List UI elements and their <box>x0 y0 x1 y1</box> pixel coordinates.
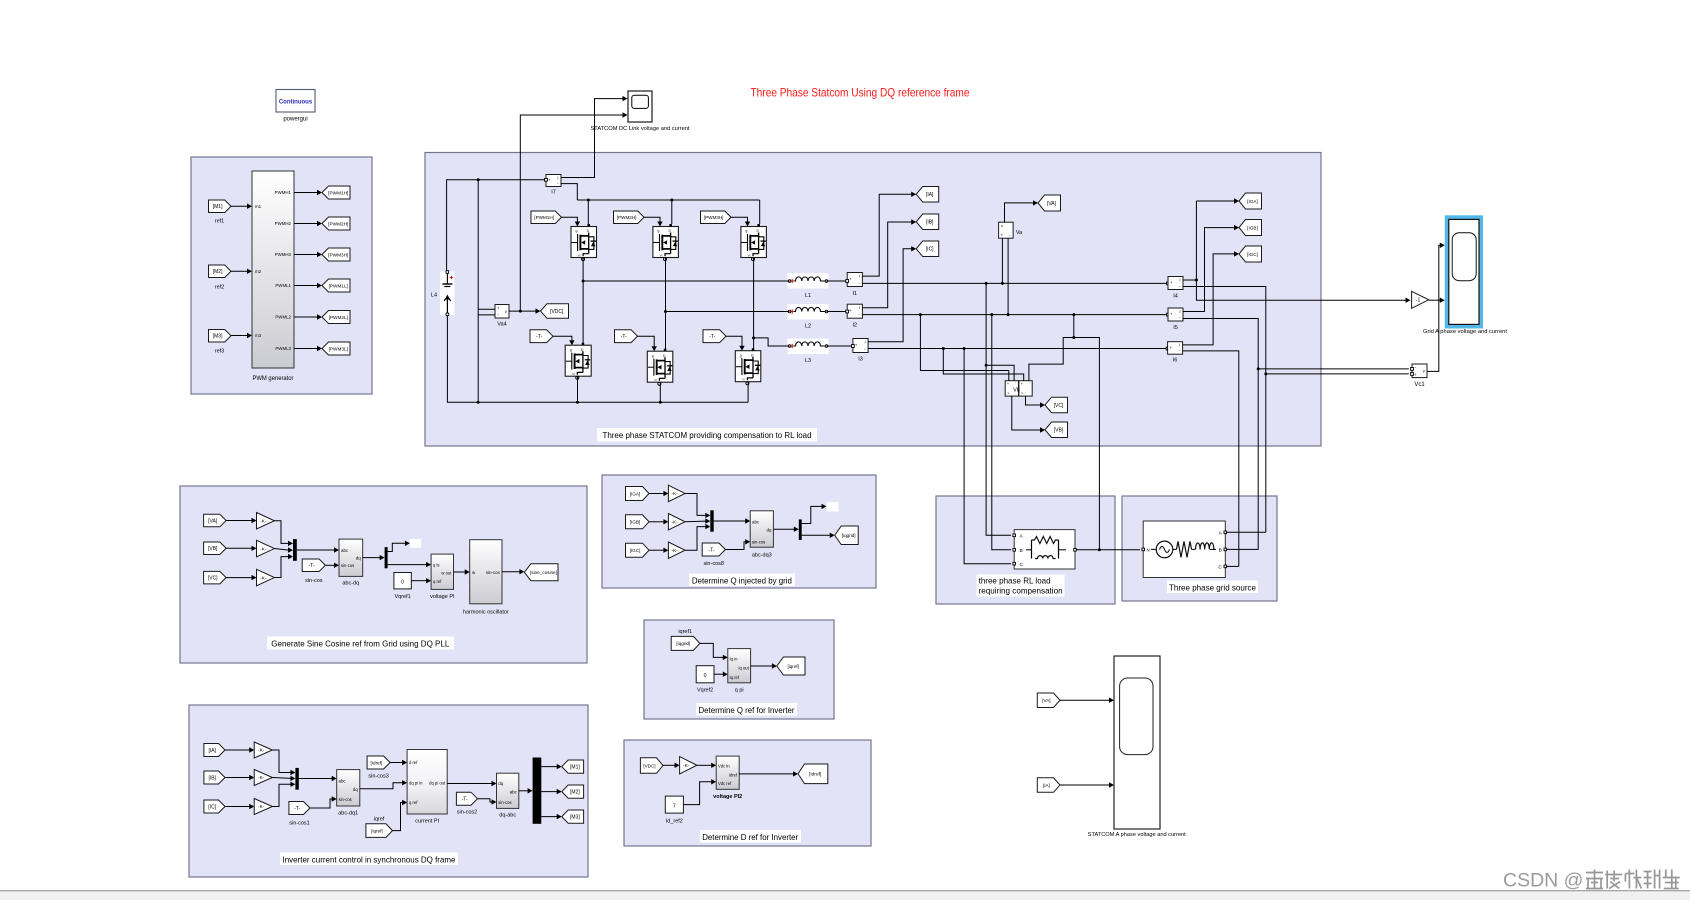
wire PWM generator to [PWM3L] <box>294 346 322 351</box>
svg-text:dq: dq <box>767 528 772 533</box>
mux (inverter currents) <box>295 768 298 790</box>
gain -K- (IGC scale) <box>668 542 685 559</box>
wire: VDC voltage signal to scope input 2 <box>519 112 628 312</box>
svg-text:[IA]: [IA] <box>926 192 934 198</box>
wire demux to terminator <box>802 504 827 524</box>
wire: phase B node between Q2 and Q5 <box>664 258 667 352</box>
mux (abc voltages) <box>293 539 297 561</box>
current measurement I3 <box>853 339 868 363</box>
svg-text:I6: I6 <box>1173 358 1178 364</box>
svg-text:PWMH2: PWMH2 <box>275 221 292 226</box>
demux (dq split) <box>385 547 388 568</box>
svg-text:Vb: Vb <box>1013 388 1020 394</box>
wire mux to abc-dq abc input <box>297 547 339 552</box>
svg-text:-K-: -K- <box>683 763 690 768</box>
svg-text:[M2]: [M2] <box>213 269 223 275</box>
svg-text:i: i <box>558 175 559 180</box>
wire: L4 bottom to DC- bottom bus <box>447 316 748 404</box>
wire: Vb input 4 from grid-N link <box>1029 315 1075 381</box>
svg-text:-K-: -K- <box>258 804 265 809</box>
svg-text:[VC]: [VC] <box>208 575 218 581</box>
svg-text:-K-: -K- <box>672 548 679 553</box>
svg-text:sin-cos: sin-cos <box>339 797 352 802</box>
wire: I6 i to [IGC] <box>1183 251 1239 345</box>
goto tag [PWM3L] <box>322 342 350 355</box>
wire mux to abc-dq1 <box>299 776 337 781</box>
svg-text:[iqref]: [iqref] <box>371 828 383 833</box>
svg-text:dq-abc: dq-abc <box>499 813 516 819</box>
svg-text:Idref: Idref <box>729 772 738 777</box>
subsystem box: Three phase grid source <box>1122 496 1277 601</box>
svg-text:L1: L1 <box>805 293 811 299</box>
svg-text:m3: m3 <box>255 333 262 338</box>
svg-text:Vqref1: Vqref1 <box>394 594 410 600</box>
svg-text:-K-: -K- <box>260 575 267 580</box>
svg-text:i: i <box>865 339 866 344</box>
terminator (d component grid) <box>827 502 839 511</box>
svg-text:[IGA]: [IGA] <box>630 491 640 496</box>
svg-text:[M1]: [M1] <box>570 764 580 770</box>
from tag [iqref] (iqref) <box>366 817 393 838</box>
svg-text:PWM generator: PWM generator <box>253 376 294 382</box>
from tag [PWM3H] <box>701 211 732 224</box>
block: three phase RL load (R+L parallel) <box>1013 530 1076 569</box>
wire: bus phase A (I1 to I4) <box>862 282 1169 285</box>
svg-text:[PWM2H]: [PWM2H] <box>328 221 348 226</box>
wire: Va4 v output to [VDC] <box>509 308 541 313</box>
wire: gain output to scope input 2 <box>1429 298 1445 303</box>
svg-text:L4: L4 <box>431 293 437 299</box>
wire -T- to abc-dq sin-cos input <box>325 563 339 568</box>
svg-text:Va4: Va4 <box>497 322 506 328</box>
current measurement I5 <box>1168 308 1183 331</box>
wire -T- to abc-dq1 sin-cos <box>310 796 337 808</box>
wire -T- to dq-abc sin-cos <box>478 799 497 805</box>
from tag [M2] (ref2) <box>209 265 232 291</box>
label: Determine Q ref for Inverter <box>696 703 797 716</box>
wire: RL load B output to grid source N <box>1077 549 1141 551</box>
block dq-abc <box>497 773 519 818</box>
from tag [VC] (PLL input) <box>204 571 227 584</box>
wire Vqref2 to q pi Iq ref <box>714 672 728 677</box>
svg-text:harmonic oscillator: harmonic oscillator <box>463 610 509 616</box>
svg-text:[PWM2H]: [PWM2H] <box>617 215 637 220</box>
svg-text:d ref: d ref <box>409 760 418 765</box>
wire gain K2 to mux in2 <box>274 547 293 552</box>
svg-text:B: B <box>1219 547 1222 553</box>
subsystem box: Three phase STATCOM providing compensation to RL load <box>425 153 1321 447</box>
wire: Vc1 + input from grid A line <box>1266 373 1414 376</box>
wire: Vb right output to [VC] <box>1026 396 1046 408</box>
wire -T- to abc-dq3 sin-cos <box>725 539 750 549</box>
svg-text:-T-: -T- <box>294 806 300 812</box>
subsystem box: Determine Q ref for Inverter <box>644 620 834 719</box>
svg-text:dq pi in: dq pi in <box>409 781 423 786</box>
svg-text:abc: abc <box>339 778 347 783</box>
svg-text:-1: -1 <box>1416 298 1421 304</box>
wire [M2] to PWM generator m2 <box>231 269 252 274</box>
wire [M1] to PWM generator m1 <box>231 204 252 209</box>
wire harmonic oscillator to [sine_cosine] <box>502 569 524 574</box>
wire: L3 to I3 <box>827 345 855 348</box>
from tag [IGA] <box>626 487 650 501</box>
svg-text:Determine Q injected by grid: Determine Q injected by grid <box>692 576 792 586</box>
block harmonic oscillator <box>463 540 509 616</box>
subsystem box: Generate Sine Cosine ref from Grid using DQ PLL <box>180 486 587 663</box>
svg-text:-K-: -K- <box>260 546 267 551</box>
wire: I1 i output to [IA] <box>862 192 916 277</box>
svg-text:dq: dq <box>498 781 503 786</box>
gain -K- (IGA scale) <box>668 485 685 502</box>
wire: Va - input from bus B <box>1007 238 1009 314</box>
watermark CSDN <box>1503 870 1680 892</box>
svg-text:VI: VI <box>654 378 657 382</box>
wire q pi to [iqref] <box>751 663 777 668</box>
from tag [-T-] (sin-cos8) <box>702 543 725 567</box>
svg-text:VI: VI <box>748 253 751 257</box>
goto tag [VDC] <box>541 304 569 319</box>
wire: I2 i output to [IB] <box>862 219 916 307</box>
wire gain IGA to mux <box>685 494 710 519</box>
label: Determine Q injected by grid <box>689 574 795 587</box>
wire PWM generator to [PWM2H] <box>294 221 322 226</box>
from tag [-T-] (sin-cos1) <box>289 802 310 827</box>
wire: I6 - output down to grid C <box>1183 351 1239 567</box>
goto tag [Idref] <box>798 764 828 784</box>
svg-text:[PWM1H]: [PWM1H] <box>328 190 348 195</box>
gain -K- (Va scale) <box>257 513 275 530</box>
subsystem box: PWM generator group <box>191 157 372 394</box>
svg-text:i: i <box>1180 309 1181 314</box>
svg-text:[Idref]: [Idref] <box>809 772 821 778</box>
wire [iqref] to current PI q ref <box>393 800 408 831</box>
svg-text:q is: q is <box>433 563 440 568</box>
label: Generate Sine Cosine ref from Grid using DQ PLL <box>267 637 454 650</box>
wire gain K3 to mux in3 <box>274 554 293 578</box>
goto tag [IGA] <box>1239 193 1262 209</box>
svg-text:ref1: ref1 <box>215 219 224 225</box>
svg-text:[IGC]: [IGC] <box>630 548 641 553</box>
label: Inverter current control in synchronous DQ frame <box>280 853 458 866</box>
terminator (d component, unconnected) <box>410 539 421 548</box>
from tag [-T-] lower gate <box>703 330 726 343</box>
svg-text:g: g <box>657 229 659 233</box>
svg-text:[IB]: [IB] <box>208 775 216 781</box>
wire: Vc1 - input from grid B line <box>1258 368 1413 371</box>
svg-text:-K-: -K- <box>672 519 679 524</box>
from tag [IGB] <box>626 515 650 529</box>
svg-text:[Idref]: [Idref] <box>370 760 382 765</box>
svg-text:PWMH3: PWMH3 <box>275 252 292 257</box>
wire: Q5 source to DC- bus <box>659 382 661 402</box>
svg-text:L2: L2 <box>805 324 811 330</box>
wire: Vc1 v output up to scope input 1 <box>1427 243 1445 372</box>
scope block: Grid A phase voltage and current (selected) <box>1423 216 1508 335</box>
svg-text:Vc1: Vc1 <box>1414 382 1425 388</box>
svg-text:[VA]: [VA] <box>208 518 218 524</box>
mosfet Q1 (upper leg A) <box>571 224 597 261</box>
svg-text:q ref: q ref <box>409 800 418 805</box>
goto tag [sine_cosine] <box>524 564 558 581</box>
wire -T- to lower mosfet gate <box>638 336 657 351</box>
svg-text:requiring compensation: requiring compensation <box>979 586 1063 596</box>
svg-text:I7: I7 <box>551 190 556 196</box>
wire Id_ref2 to voltage PI2 Vdc ref <box>683 779 716 805</box>
wire -T- to lower mosfet gate <box>726 336 745 351</box>
wire: phase B to L2 <box>666 311 790 313</box>
wire [PWM3H] to mosfet gate <box>731 217 750 226</box>
mosfet Q5 (lower leg B) <box>647 349 673 386</box>
goto tag [IC] <box>916 241 939 257</box>
svg-text:q ref: q ref <box>433 579 442 584</box>
svg-text:[IGB]: [IGB] <box>1247 225 1257 230</box>
voltage measurement Vc1 <box>1412 364 1427 388</box>
wire: I4 i to [IGA] and branch to -1 gain <box>1183 198 1411 303</box>
svg-text:sin-cos: sin-cos <box>498 800 511 805</box>
current measurement I4 <box>1168 277 1183 300</box>
svg-text:PWML1: PWML1 <box>275 283 291 288</box>
block PWM generator (masked subsystem) <box>252 171 294 382</box>
svg-text:7: 7 <box>673 804 676 810</box>
wire: L1 to I1 <box>827 280 849 283</box>
wire PWM generator to [PWM1H] <box>294 190 322 195</box>
svg-text:CSDN @: CSDN @ <box>1503 870 1583 892</box>
svg-text:[iqgrid]: [iqgrid] <box>676 641 690 646</box>
from tag [Idref] (sin-cos3) <box>367 756 390 780</box>
from tag [iqgrid] (iqref1) <box>671 629 700 650</box>
goto tag [VC] <box>1045 397 1068 413</box>
inductor L2 <box>788 304 829 330</box>
scope block: STATCOM A phase voltage and current <box>1088 656 1187 838</box>
svg-text:-T-: -T- <box>462 797 468 803</box>
wire demux to [M1] <box>541 764 561 769</box>
constant Id_ref2 (7) <box>665 796 683 824</box>
svg-text:q pi: q pi <box>735 688 744 694</box>
svg-text:sin-cos3: sin-cos3 <box>368 774 388 780</box>
svg-text:C: C <box>1218 564 1222 570</box>
svg-text:iqref1: iqref1 <box>678 629 692 635</box>
svg-text:-K-: -K- <box>258 775 265 780</box>
svg-text:[VA]: [VA] <box>1042 698 1050 703</box>
wire demux to [M3] <box>541 814 561 819</box>
label: Determine D ref for Inverter <box>700 830 801 843</box>
svg-text:[iqgrid]: [iqgrid] <box>842 533 856 538</box>
svg-text:PWMH1: PWMH1 <box>275 190 292 195</box>
wire: L2 to I2 <box>827 310 849 313</box>
demux (dq split grid) <box>799 519 802 540</box>
capacitor L4 (DC link) <box>431 271 455 316</box>
wire: phase A node between Q1 and Q4 <box>582 258 585 346</box>
svg-text:[M1]: [M1] <box>213 204 223 210</box>
from tag [M1] (ref1) <box>209 200 232 225</box>
wire demux to [iqgrid] <box>802 533 835 538</box>
current measurement I2 <box>847 304 862 328</box>
svg-text:C: C <box>1020 562 1024 568</box>
svg-text:i: i <box>1180 277 1181 282</box>
inductor L1 <box>788 273 829 299</box>
gain block -1 <box>1412 291 1429 308</box>
goto tag [M3] <box>562 810 584 823</box>
goto tag [IGB] <box>1239 220 1262 236</box>
svg-text:i: i <box>1179 343 1180 348</box>
goto tag [PWM1L] <box>322 279 350 292</box>
wire mux to abc-dq3 <box>714 518 751 523</box>
svg-text:-K-: -K- <box>258 748 265 753</box>
svg-text:0: 0 <box>401 579 404 585</box>
svg-text:sin-cos8: sin-cos8 <box>703 561 723 567</box>
svg-text:abc: abc <box>752 520 760 525</box>
svg-text:L3: L3 <box>805 358 811 364</box>
wire [IB] to gain <box>225 775 254 780</box>
from tag [VA] (PLL input) <box>204 514 227 527</box>
from tag [PWM1H] <box>531 211 562 224</box>
svg-text:-T-: -T- <box>621 334 627 340</box>
goto tag [M1] <box>562 760 584 773</box>
block current PI <box>407 750 447 825</box>
svg-text:[IA]: [IA] <box>208 748 216 754</box>
svg-text:sin-cos: sin-cos <box>752 540 765 545</box>
from tag [PWM2H] <box>614 211 645 224</box>
wire: grid source A to riser <box>1227 531 1266 533</box>
block abc-dq1 <box>337 770 360 817</box>
svg-text:[IGC]: [IGC] <box>1247 252 1258 257</box>
gain -K- (Vc scale) <box>257 569 275 586</box>
svg-text:I5: I5 <box>1173 325 1178 331</box>
goto tag [IGC] <box>1239 246 1262 262</box>
wire gain IGB to mux <box>685 518 710 523</box>
svg-text:ref2: ref2 <box>215 285 224 291</box>
svg-text:D: D <box>751 353 754 357</box>
svg-text:[iqref]: [iqref] <box>787 664 799 669</box>
wire PWM generator to [PWM2L] <box>294 314 322 319</box>
gain -K- (IB scale) <box>254 770 272 786</box>
constant Vqref2 (0) <box>696 666 714 694</box>
wire: Va output to [VA] <box>1005 200 1039 222</box>
block: three phase grid source (AC source + impedance) <box>1142 521 1227 578</box>
svg-text:Three phase grid source: Three phase grid source <box>1169 583 1256 593</box>
gain -K- (IC scale) <box>254 799 272 815</box>
gain -K- (Vdc scale) <box>680 757 697 774</box>
wire Vqref1 to voltage PI q ref <box>411 578 431 583</box>
mosfet Q6 (lower leg C) <box>735 348 761 385</box>
svg-text:[PWM3H]: [PWM3H] <box>704 215 724 220</box>
wire [IA] to scope <box>1060 782 1114 787</box>
svg-text:[VB]: [VB] <box>1054 428 1064 434</box>
svg-text:[IA]: [IA] <box>1043 783 1050 788</box>
svg-text:-K-: -K- <box>672 491 679 496</box>
svg-text:abc: abc <box>341 548 349 553</box>
svg-text:Three Phase Statcom Using DQ r: Three Phase Statcom Using DQ reference f… <box>751 86 970 100</box>
wire: I5 - output down to grid B / Vc1 - <box>1183 319 1260 550</box>
goto tag [IB] <box>916 214 939 230</box>
label: three phase RL load requiring compensation <box>977 575 1065 597</box>
subsystem box: Inverter current control in synchronous DQ frame <box>189 705 588 877</box>
wire [iqgrid] to q pi Iq in <box>700 643 728 660</box>
wire dq-abc to demux <box>519 788 533 793</box>
svg-text:VI: VI <box>572 372 575 376</box>
wire [VC] to gain K3 <box>226 575 256 580</box>
svg-text:-T-: -T- <box>536 334 542 340</box>
wire voltage PI w out to harmonic oscillator <box>454 569 470 574</box>
svg-text:[sine_cosine]: [sine_cosine] <box>530 570 557 575</box>
svg-text:Continuous: Continuous <box>279 100 313 106</box>
svg-text:ref3: ref3 <box>215 349 224 355</box>
svg-text:sin-cos: sin-cos <box>486 570 501 575</box>
svg-text:[PWM1H]: [PWM1H] <box>534 215 554 220</box>
svg-text:[IC]: [IC] <box>926 247 934 253</box>
svg-text:STATCOM A phase voltage and cu: STATCOM A phase voltage and current <box>1088 832 1187 838</box>
svg-text:[VA]: [VA] <box>1047 201 1057 207</box>
wire [IGB] to gain <box>649 519 668 524</box>
voltage measurement Va <box>999 222 1023 238</box>
svg-text:sin-cos1: sin-cos1 <box>289 821 309 827</box>
wire [IA] to gain <box>225 747 254 752</box>
svg-text:m1: m1 <box>255 204 262 209</box>
svg-text:[VB]: [VB] <box>208 546 218 552</box>
from tag [-T-] lower gate <box>615 330 638 343</box>
svg-text:Vdc in: Vdc in <box>718 763 730 768</box>
svg-text:voltage PI: voltage PI <box>430 594 455 600</box>
from tag [VB] (PLL input) <box>204 542 227 555</box>
goto tag [iqgrid] <box>835 526 859 545</box>
svg-text:g: g <box>745 229 747 233</box>
demux (modulation signals) <box>533 758 542 824</box>
from tag [-T-] lower gate <box>530 330 553 343</box>
svg-text:-T-: -T- <box>709 334 715 340</box>
svg-text:D: D <box>581 348 584 352</box>
wire: grid-N link down to B line <box>1074 338 1101 552</box>
svg-text:[VDC]: [VDC] <box>643 763 655 768</box>
svg-text:sin-cos: sin-cos <box>305 578 323 584</box>
label: Three phase STATCOM providing compensation to RL load <box>597 428 817 442</box>
goto tag [PWM1H] <box>322 186 350 199</box>
svg-text:PWML2: PWML2 <box>275 315 291 320</box>
bottom scrollbar strip <box>0 891 1690 900</box>
wire [VB] to gain K2 <box>226 546 256 551</box>
wire PWM generator to [PWM3H] <box>294 252 322 257</box>
goto tag [PWM2H] <box>322 217 350 230</box>
svg-text:[IGA]: [IGA] <box>1247 199 1257 204</box>
wire -T- to lower mosfet gate <box>553 336 575 345</box>
svg-text:i: i <box>859 305 860 310</box>
wire gain to voltage PI2 Vdc in <box>697 763 716 768</box>
wire: DC+ rail to I7 <box>447 178 548 272</box>
from tag [VDC] <box>640 758 663 774</box>
wire: I7 - output down to top DC bus <box>561 184 577 200</box>
title text: Three Phase Statcom Using DQ reference frame <box>751 86 970 100</box>
svg-text:[PWM1L]: [PWM1L] <box>329 283 348 288</box>
svg-text:I2: I2 <box>853 323 858 329</box>
wire current PI out to dq-abc <box>447 781 496 786</box>
wire: Va + input from bus A <box>1001 238 1003 283</box>
goto tag [VB] <box>1045 422 1068 438</box>
svg-text:Id_ref2: Id_ref2 <box>666 819 683 825</box>
goto tag [PWM3H] <box>322 248 350 261</box>
svg-text:[VC]: [VC] <box>1054 403 1064 409</box>
svg-text:I4: I4 <box>1173 294 1178 300</box>
svg-text:[M3]: [M3] <box>213 334 223 340</box>
svg-text:current PI: current PI <box>415 819 439 825</box>
wire gain IC to mux <box>272 782 295 807</box>
goto tag [iqref] <box>777 657 805 675</box>
svg-text:w out: w out <box>441 571 452 576</box>
svg-text:VI: VI <box>660 253 663 257</box>
wire: DC+ vertical to Va4 + and DC- bus <box>477 180 495 404</box>
voltage measurement Va4 <box>495 305 509 328</box>
svg-text:[VDC]: [VDC] <box>550 309 564 315</box>
wire: phase A down to RL load input A <box>986 283 1011 535</box>
scope block: STATCOM DC Link voltage and current <box>591 91 691 132</box>
